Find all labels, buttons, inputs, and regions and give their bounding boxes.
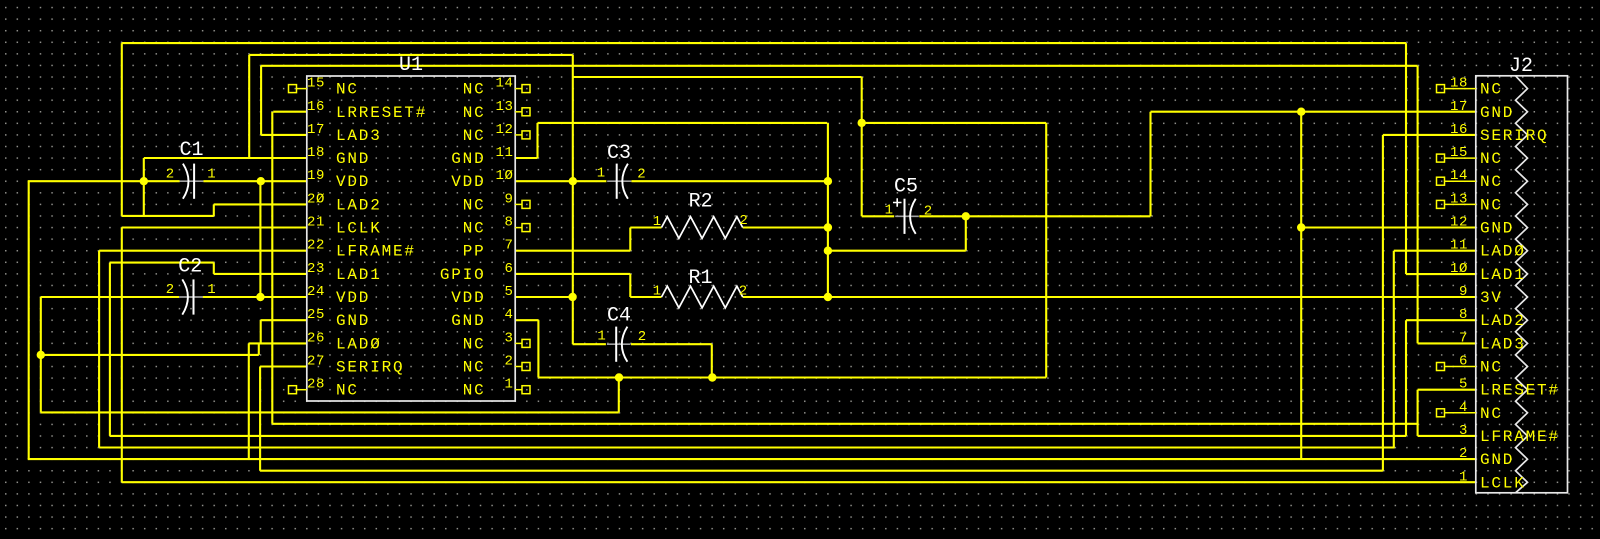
svg-text:1: 1 [885, 203, 893, 219]
svg-text:2: 2 [166, 282, 174, 298]
svg-text:8: 8 [504, 215, 513, 231]
svg-text:LAD3: LAD3 [1480, 335, 1526, 353]
svg-text:27: 27 [307, 354, 325, 370]
svg-text:GND: GND [451, 150, 485, 168]
svg-text:6: 6 [504, 261, 513, 277]
svg-text:NC: NC [1480, 173, 1503, 191]
svg-text:LADØ: LADØ [1480, 243, 1526, 261]
svg-text:U1: U1 [399, 54, 423, 77]
svg-text:LAD3: LAD3 [336, 127, 382, 145]
svg-text:LCLK: LCLK [1480, 474, 1526, 492]
svg-text:5: 5 [1459, 377, 1468, 393]
svg-text:NC: NC [463, 196, 486, 214]
svg-text:NC: NC [463, 220, 486, 238]
svg-text:11: 11 [1450, 238, 1468, 254]
svg-text:C4: C4 [607, 305, 631, 328]
svg-text:9: 9 [1459, 284, 1468, 300]
svg-text:PP: PP [463, 243, 486, 261]
svg-text:17: 17 [307, 122, 325, 138]
svg-text:4: 4 [504, 307, 513, 323]
svg-text:9: 9 [504, 191, 513, 207]
svg-text:13: 13 [1450, 191, 1468, 207]
svg-text:NC: NC [1480, 81, 1503, 99]
svg-text:11: 11 [495, 145, 513, 161]
svg-text:NC: NC [463, 335, 486, 353]
svg-text:NC: NC [336, 81, 359, 99]
svg-text:R2: R2 [689, 191, 713, 214]
svg-text:C5: C5 [894, 176, 918, 199]
svg-text:LAD1: LAD1 [1480, 266, 1526, 284]
svg-text:19: 19 [307, 168, 325, 184]
svg-text:VDD: VDD [451, 289, 485, 307]
svg-text:14: 14 [495, 76, 513, 92]
svg-text:12: 12 [1450, 215, 1468, 231]
svg-text:7: 7 [1459, 330, 1468, 346]
svg-text:25: 25 [307, 307, 325, 323]
svg-text:1: 1 [504, 377, 513, 393]
svg-text:28: 28 [307, 377, 325, 393]
svg-text:VDD: VDD [451, 173, 485, 191]
svg-text:GND: GND [336, 312, 370, 330]
svg-text:1: 1 [653, 284, 661, 300]
svg-text:LFRAME#: LFRAME# [1480, 428, 1560, 446]
svg-text:3: 3 [1459, 423, 1468, 439]
svg-text:22: 22 [307, 238, 325, 254]
svg-text:1: 1 [597, 328, 605, 344]
svg-text:2: 2 [638, 329, 646, 345]
svg-text:C3: C3 [607, 142, 631, 165]
svg-text:17: 17 [1450, 99, 1468, 115]
svg-text:NC: NC [463, 359, 486, 377]
svg-text:2: 2 [504, 354, 513, 370]
svg-text:GND: GND [336, 150, 370, 168]
svg-text:NC: NC [336, 382, 359, 400]
svg-text:24: 24 [307, 284, 325, 300]
svg-text:LFRAME#: LFRAME# [336, 243, 416, 261]
svg-text:VDD: VDD [336, 289, 370, 307]
svg-text:5: 5 [504, 284, 513, 300]
svg-text:14: 14 [1450, 168, 1468, 184]
svg-text:NC: NC [1480, 405, 1503, 423]
svg-text:LADØ: LADØ [336, 335, 382, 353]
svg-text:15: 15 [307, 76, 325, 92]
svg-text:SERIRQ: SERIRQ [336, 359, 404, 377]
svg-text:2: 2 [166, 166, 174, 182]
svg-text:7: 7 [504, 238, 513, 254]
svg-text:2: 2 [1459, 446, 1468, 462]
svg-text:12: 12 [495, 122, 513, 138]
svg-text:LRRESET#: LRRESET# [336, 104, 427, 122]
svg-text:23: 23 [307, 261, 325, 277]
svg-text:8: 8 [1459, 307, 1468, 323]
svg-text:1: 1 [207, 282, 215, 298]
svg-text:R1: R1 [688, 267, 712, 290]
svg-text:26: 26 [307, 330, 325, 346]
svg-text:2: 2 [739, 284, 747, 300]
svg-text:LAD1: LAD1 [336, 266, 382, 284]
svg-text:GND: GND [451, 312, 485, 330]
svg-text:1: 1 [1459, 469, 1468, 485]
svg-text:2: 2 [637, 167, 645, 183]
svg-text:13: 13 [495, 99, 513, 115]
svg-text:GND: GND [1480, 104, 1514, 122]
svg-text:21: 21 [307, 215, 325, 231]
svg-text:1: 1 [597, 166, 605, 182]
svg-text:2Ø: 2Ø [307, 191, 325, 207]
svg-text:18: 18 [307, 145, 325, 161]
svg-text:NC: NC [1480, 196, 1503, 214]
svg-text:1: 1 [207, 166, 215, 182]
svg-text:2: 2 [739, 213, 747, 229]
svg-text:C1: C1 [179, 139, 203, 162]
svg-text:16: 16 [1450, 122, 1468, 138]
svg-text:15: 15 [1450, 145, 1468, 161]
svg-text:LRESET#: LRESET# [1480, 382, 1560, 400]
svg-text:NC: NC [463, 81, 486, 99]
svg-text:J2: J2 [1509, 55, 1533, 78]
svg-text:3V: 3V [1480, 289, 1503, 307]
svg-text:NC: NC [463, 127, 486, 145]
svg-text:4: 4 [1459, 400, 1468, 416]
svg-text:16: 16 [307, 99, 325, 115]
svg-text:NC: NC [1480, 359, 1503, 377]
svg-text:SERIRQ: SERIRQ [1480, 127, 1548, 145]
svg-text:2: 2 [924, 204, 932, 220]
svg-text:GND: GND [1480, 220, 1514, 238]
svg-text:LAD2: LAD2 [1480, 312, 1526, 330]
svg-text:GND: GND [1480, 451, 1514, 469]
svg-text:GPIO: GPIO [440, 266, 486, 284]
svg-text:C2: C2 [178, 256, 202, 279]
svg-text:18: 18 [1450, 76, 1468, 92]
svg-text:NC: NC [1480, 150, 1503, 168]
svg-text:6: 6 [1459, 354, 1468, 370]
svg-text:1: 1 [653, 214, 661, 230]
svg-text:1Ø: 1Ø [1450, 261, 1468, 277]
svg-text:3: 3 [504, 330, 513, 346]
svg-text:NC: NC [463, 382, 486, 400]
svg-text:LCLK: LCLK [336, 220, 382, 238]
svg-text:VDD: VDD [336, 173, 370, 191]
svg-text:1Ø: 1Ø [495, 168, 513, 184]
svg-text:NC: NC [463, 104, 486, 122]
svg-text:LAD2: LAD2 [336, 196, 382, 214]
